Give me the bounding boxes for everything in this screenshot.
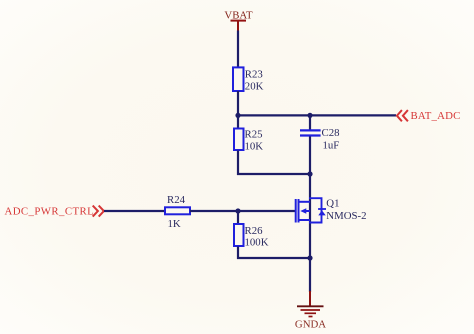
wire R24 to Q1 gate <box>190 210 296 212</box>
svg-text:10K: 10K <box>245 140 264 152</box>
wire R25 to mid rail <box>237 151 239 176</box>
svg-text:R26: R26 <box>245 225 264 237</box>
wire gate rail to R26 <box>237 211 239 224</box>
junction node at C28 / rail <box>307 113 312 118</box>
svg-text:BAT_ADC: BAT_ADC <box>411 110 461 122</box>
wire Q1 source to ground <box>309 258 311 292</box>
wire R26 to bottom rail <box>237 247 239 260</box>
wire mid rail to Q1 drain <box>309 174 311 259</box>
wire bottom rail <box>237 257 311 259</box>
wire VBAT to R23 <box>237 31 239 68</box>
svg-text:R25: R25 <box>245 128 263 140</box>
svg-text:C28: C28 <box>322 127 340 139</box>
svg-text:ADC_PWR_CTRL: ADC_PWR_CTRL <box>5 206 95 218</box>
wire ADC_PWR_CTRL to R24 <box>104 210 166 212</box>
power VBAT <box>224 10 253 31</box>
ground GNDA <box>295 291 326 331</box>
wire rail to R25 <box>237 115 239 129</box>
capacitor C28 <box>300 130 321 135</box>
wire R23 to rail <box>237 91 239 116</box>
svg-text:1K: 1K <box>168 218 181 230</box>
resistor R26 <box>234 224 244 246</box>
junction node at C28 / mid rail <box>307 171 312 176</box>
junction node at Q1 source / bottom rail <box>307 255 312 260</box>
wire rail to BAT_ADC <box>237 114 396 116</box>
resistor R25 <box>234 129 244 151</box>
wire mid rail <box>237 173 311 175</box>
svg-text:20K: 20K <box>245 80 264 92</box>
svg-text:R24: R24 <box>167 194 186 206</box>
svg-text:NMOS-2: NMOS-2 <box>326 210 366 222</box>
svg-text:100K: 100K <box>245 237 269 249</box>
transistor Q1 <box>296 198 326 222</box>
svg-text:1uF: 1uF <box>323 139 340 151</box>
svg-text:Q1: Q1 <box>326 197 339 209</box>
resistor R24 <box>165 207 190 214</box>
wire rail to C28 <box>309 115 311 130</box>
junction node at R23 / rail <box>235 113 240 118</box>
resistor R23 <box>233 67 244 91</box>
svg-text:R23: R23 <box>245 68 263 80</box>
svg-text:GNDA: GNDA <box>295 319 326 331</box>
port ADC_PWR_CTRL <box>5 206 104 218</box>
wire C28 to mid rail <box>309 137 311 176</box>
port BAT_ADC <box>397 110 461 122</box>
junction node at R26 / gate wire <box>235 208 240 213</box>
